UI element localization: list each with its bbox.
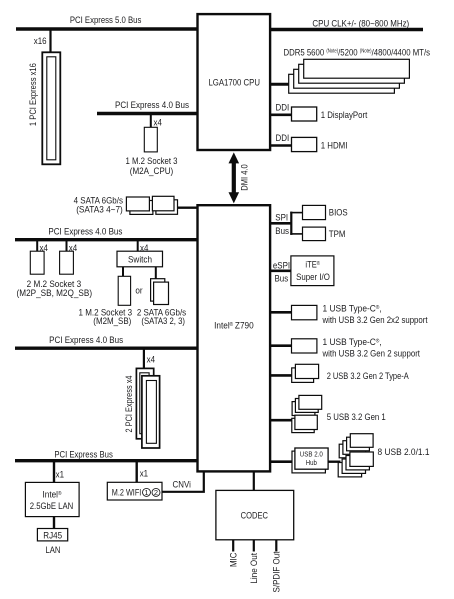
svg-text:PCI Express 4.0 Bus: PCI Express 4.0 Bus — [49, 335, 123, 346]
svg-text:2 PCI Express x4: 2 PCI Express x4 — [124, 376, 135, 433]
svg-text:TPM: TPM — [329, 229, 346, 240]
svg-text:1: 1 — [144, 488, 148, 497]
svg-text:S/PDIF Out: S/PDIF Out — [272, 551, 283, 592]
svg-text:Bus: Bus — [275, 226, 289, 237]
svg-text:x4: x4 — [140, 243, 148, 253]
svg-text:DMI 4.0: DMI 4.0 — [239, 164, 250, 191]
svg-text:LAN: LAN — [46, 545, 61, 556]
svg-text:1 USB Type-C®,: 1 USB Type-C®, — [323, 337, 382, 348]
svg-text:CODEC: CODEC — [241, 511, 268, 522]
svg-text:(SATA3 2, 3): (SATA3 2, 3) — [141, 316, 185, 327]
svg-text:DDR5 5600 (Note)/5200 (Note)/4: DDR5 5600 (Note)/5200 (Note)/4800/4400 M… — [284, 47, 431, 58]
svg-text:BIOS: BIOS — [329, 208, 348, 219]
svg-text:8 USB 2.0/1.1: 8 USB 2.0/1.1 — [378, 447, 430, 458]
svg-text:1 HDMI: 1 HDMI — [321, 141, 348, 152]
svg-text:DDI: DDI — [276, 133, 290, 144]
svg-text:Super I/O: Super I/O — [296, 272, 330, 283]
svg-text:eSPI: eSPI — [273, 260, 290, 271]
svg-text:PCI Express Bus: PCI Express Bus — [54, 450, 113, 461]
svg-text:with USB 3.2 Gen 2x2 support: with USB 3.2 Gen 2x2 support — [322, 315, 428, 326]
svg-text:M.2 WIFI: M.2 WIFI — [112, 488, 142, 499]
svg-text:Hub: Hub — [306, 460, 317, 467]
svg-text:CPU CLK+/- (80~800 MHz): CPU CLK+/- (80~800 MHz) — [312, 18, 409, 29]
svg-text:RJ45: RJ45 — [43, 530, 62, 541]
svg-text:x1: x1 — [140, 468, 148, 478]
svg-text:x1: x1 — [56, 469, 64, 479]
svg-text:2.5GbE LAN: 2.5GbE LAN — [30, 501, 74, 512]
svg-text:1 PCI Express x16: 1 PCI Express x16 — [28, 63, 39, 126]
svg-text:(M2M_SB): (M2M_SB) — [93, 316, 131, 327]
svg-text:PCI Express 5.0 Bus: PCI Express 5.0 Bus — [70, 15, 142, 26]
svg-text:1 DisplayPort: 1 DisplayPort — [321, 110, 368, 121]
svg-text:x4: x4 — [40, 243, 48, 253]
svg-text:LGA1700 CPU: LGA1700 CPU — [208, 77, 260, 88]
svg-text:x4: x4 — [69, 243, 77, 253]
svg-text:PCI Express 4.0 Bus: PCI Express 4.0 Bus — [48, 227, 122, 238]
svg-text:Switch: Switch — [128, 254, 152, 264]
svg-text:2: 2 — [154, 488, 158, 497]
svg-text:DDI: DDI — [276, 102, 290, 113]
svg-text:(SATA3 4~7): (SATA3 4~7) — [76, 205, 123, 216]
svg-text:5 USB 3.2 Gen 1: 5 USB 3.2 Gen 1 — [327, 412, 386, 423]
svg-text:2 USB 3.2 Gen 2 Type-A: 2 USB 3.2 Gen 2 Type-A — [327, 371, 410, 382]
svg-text:USB 2.0: USB 2.0 — [300, 452, 323, 459]
svg-text:MIC: MIC — [229, 552, 240, 567]
svg-text:or: or — [135, 285, 142, 295]
svg-text:(M2P_SB, M2Q_SB): (M2P_SB, M2Q_SB) — [17, 288, 93, 299]
svg-text:CNVi: CNVi — [173, 480, 191, 491]
svg-text:(M2A_CPU): (M2A_CPU) — [130, 166, 174, 177]
svg-text:PCI Express 4.0 Bus: PCI Express 4.0 Bus — [115, 100, 189, 111]
svg-text:1 USB Type-C®,: 1 USB Type-C®, — [323, 304, 382, 315]
svg-text:SPI: SPI — [275, 213, 288, 224]
svg-text:x4: x4 — [147, 355, 155, 365]
svg-text:x16: x16 — [34, 36, 47, 46]
svg-text:x4: x4 — [154, 117, 162, 127]
svg-text:Line Out: Line Out — [249, 553, 260, 584]
svg-text:Bus: Bus — [275, 274, 289, 285]
svg-text:with USB 3.2 Gen 2 support: with USB 3.2 Gen 2 support — [322, 349, 421, 360]
